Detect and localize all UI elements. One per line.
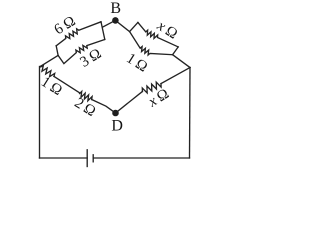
wire: bottom rail, left segment to battery (40, 157, 88, 159)
svg-text:B: B (110, 0, 121, 17)
svg-text:x Ω: x Ω (145, 86, 172, 111)
wire: R7 to node R (161, 68, 190, 84)
svg-text:1 Ω: 1 Ω (123, 50, 150, 75)
wire: right box east side (173, 47, 179, 55)
wire: bottom rail, right segment from battery (93, 157, 189, 159)
resistor R1 (6 ohm): top branch of left box (56, 22, 101, 46)
wire: left box west side (56, 46, 58, 56)
svg-text:6 Ω: 6 Ω (52, 13, 79, 38)
node D junction dot (112, 110, 119, 117)
resistor R5 (1 ohm): zigzag on arm L-D (40, 65, 54, 76)
circuit schematic: bridge network with nodes B and D, battery at bottom (0, 0, 280, 183)
wire: left rail, node L down to bottom-left corner (39, 67, 41, 159)
svg-text:1 Ω: 1 Ω (38, 74, 65, 99)
battery cell: short thick plate (92, 155, 94, 162)
resistor R7 (x ohm): zigzag on arm D-R (142, 82, 161, 93)
svg-text:2 Ω: 2 Ω (72, 95, 99, 120)
resistor R2 (3 ohm): bottom branch of left box (58, 40, 105, 64)
node B junction dot (112, 17, 119, 24)
resistor R6 (2 ohm): zigzag on arm L-D (80, 92, 92, 101)
wire: left box east side (101, 22, 105, 40)
wire: between R5 and R6 (54, 76, 80, 92)
svg-text:D: D (111, 118, 123, 135)
svg-text:x Ω: x Ω (153, 17, 180, 42)
wire: node B down to right box west junction (115, 20, 129, 31)
wire: right box west side (130, 22, 138, 31)
wire: right box east junction to node R (173, 55, 190, 68)
wire: right rail, bottom-right corner up to node R (189, 68, 192, 159)
resistor R3 (x ohm): top branch of right box (138, 22, 178, 47)
wire: left box NE junction to node B (102, 20, 115, 27)
resistor R4 (1 ohm): bottom branch of right box (130, 32, 173, 55)
battery cell: long plate (86, 150, 88, 167)
wire: R6 to node D (92, 100, 116, 114)
wire: node L up to left box SW junction (40, 55, 58, 66)
wire: node D to resistor R7 (116, 92, 143, 114)
